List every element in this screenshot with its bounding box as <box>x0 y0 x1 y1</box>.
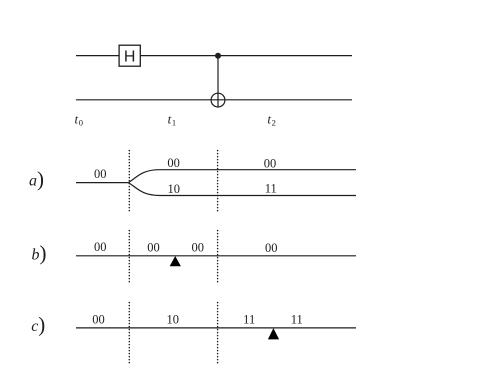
dotted line a left <box>128 151 130 213</box>
svg-text:00: 00 <box>94 167 107 181</box>
dotted line c left <box>128 303 130 366</box>
wire a lower branch <box>129 183 357 196</box>
svg-text:00: 00 <box>94 240 107 254</box>
wire b <box>76 255 356 257</box>
svg-text:11: 11 <box>291 313 303 327</box>
svg-text:00: 00 <box>147 240 160 254</box>
wire CNOT vertical <box>217 56 219 107</box>
dotted line b right <box>217 231 219 285</box>
svg-text:00: 00 <box>92 312 105 326</box>
svg-text:11: 11 <box>243 313 255 327</box>
svg-text:00: 00 <box>191 240 204 254</box>
dotted line b left <box>128 231 130 285</box>
svg-text:11: 11 <box>265 182 277 196</box>
svg-text:00: 00 <box>167 156 180 170</box>
wire c <box>76 327 356 329</box>
gate H U1 <box>119 45 140 66</box>
svg-text:H: H <box>124 49 136 66</box>
marker b triangle <box>170 256 181 266</box>
wire a stem <box>76 182 129 184</box>
marker c triangle <box>268 328 279 339</box>
CNOT target <box>211 93 225 107</box>
svg-text:00: 00 <box>265 241 278 255</box>
dotted line a right <box>217 151 219 213</box>
wire a upper branch <box>129 170 357 183</box>
svg-text:10: 10 <box>168 182 181 196</box>
svg-text:10: 10 <box>167 313 180 327</box>
wire top qubit <box>76 55 352 57</box>
dotted line c right <box>217 303 219 366</box>
wire bottom qubit <box>76 99 352 101</box>
CNOT control dot <box>215 53 221 59</box>
svg-text:00: 00 <box>264 156 277 170</box>
